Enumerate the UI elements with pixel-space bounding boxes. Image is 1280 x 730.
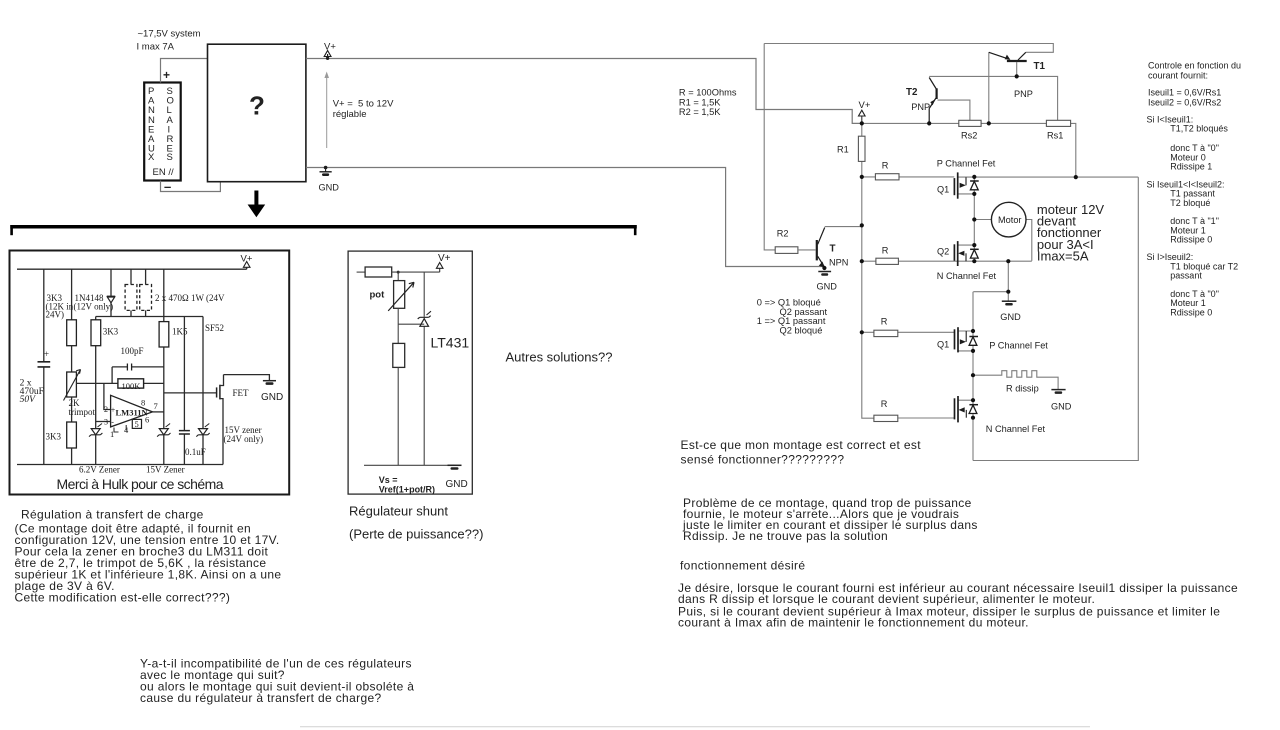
wire R gate Q1 — [862, 176, 955, 178]
svg-text:24V): 24V) — [46, 310, 65, 320]
svg-text:EN //: EN // — [153, 167, 174, 178]
resistor 3K3 lower left — [67, 422, 77, 465]
svg-text:réglable: réglable — [333, 109, 367, 120]
transistor Q2 N channel — [937, 241, 966, 266]
svg-text:sensé fonctionner?????????: sensé fonctionner????????? — [681, 452, 845, 466]
svg-text:Rdissipe 0: Rdissipe 0 — [1170, 307, 1212, 317]
svg-text:fonctionnement désiré: fonctionnement désiré — [680, 559, 805, 573]
dashed resistor b — [140, 269, 152, 316]
svg-text:GND: GND — [1051, 402, 1072, 412]
ground GND LM311 — [261, 381, 283, 403]
svg-text:V+: V+ — [324, 42, 336, 53]
text incompatibilite question — [140, 657, 414, 706]
motor M — [991, 202, 1026, 237]
resistor 3K3 middle branch — [91, 317, 101, 429]
svg-text:Motor: Motor — [998, 215, 1022, 225]
svg-text:V+ = 5 to 12V: V+ = 5 to 12V — [333, 99, 394, 110]
LT431 schematic frame — [348, 251, 472, 494]
body diode Q1b — [969, 337, 978, 346]
text je desire paragraph — [678, 581, 1238, 629]
svg-text:R: R — [881, 399, 888, 409]
node V+ LT431 — [436, 253, 450, 272]
svg-text:5: 5 — [135, 419, 139, 429]
svg-text:R1: R1 — [837, 145, 849, 155]
wire motor left — [974, 219, 992, 221]
bottom rail — [17, 464, 223, 466]
wire Q1 source stub — [958, 193, 975, 195]
svg-text:courant à Imax afin de mainten: courant à Imax afin de maintenir le fonc… — [678, 615, 1029, 629]
svg-text:+: + — [163, 68, 170, 82]
wire FET drain to GND — [224, 375, 270, 380]
svg-text:V+: V+ — [859, 100, 871, 111]
svg-text:Q2 bloqué: Q2 bloqué — [780, 326, 823, 336]
shunt regulator LT431 — [418, 272, 470, 465]
svg-text:Controle en fonction du: Controle en fonction du — [1148, 61, 1241, 71]
wire T1 base line to Rs1 — [929, 76, 1057, 120]
resistor R a — [875, 161, 899, 180]
capacitor 0.1uF branch — [179, 317, 190, 465]
capacitor 100pF — [112, 364, 164, 384]
label moteur 12V block — [1037, 202, 1105, 263]
svg-text:Rs2: Rs2 — [961, 131, 977, 141]
svg-text:GND: GND — [817, 282, 838, 292]
resistor Rs2 — [959, 120, 981, 140]
annotation arrow V+ range — [324, 72, 329, 149]
text regulation a transfert de charge — [15, 508, 282, 605]
svg-text:N Channel Fet: N Channel Fet — [937, 271, 997, 281]
LM311 schematic frame — [10, 251, 290, 495]
body diode Q2 — [970, 249, 979, 258]
svg-text:GND: GND — [446, 479, 468, 490]
label 1N4148 (12V only) — [74, 293, 114, 311]
transistor Q2b N channel lower — [955, 396, 967, 422]
svg-text:GND: GND — [261, 392, 283, 403]
svg-text:50V: 50V — [20, 395, 36, 405]
zener 15V output — [157, 424, 170, 465]
ground GND LT431 — [446, 465, 468, 490]
V+ rail top — [17, 268, 247, 270]
transistor Q1b P channel lower — [937, 327, 966, 352]
svg-text:Rs1: Rs1 — [1047, 131, 1063, 141]
svg-text:R: R — [882, 161, 889, 171]
svg-text:SF52: SF52 — [205, 323, 224, 333]
svg-text:Rdissip. Je ne trouve pas la s: Rdissip. Je ne trouve pas la solution — [683, 529, 888, 543]
svg-text:(24V only): (24V only) — [224, 434, 264, 444]
wire V+ rail — [862, 123, 1076, 177]
capacitor 2x470uF branch — [38, 269, 51, 464]
svg-text:FET: FET — [233, 388, 250, 398]
wire Q2 source line — [862, 260, 1032, 262]
zener 15V right — [196, 317, 209, 465]
wire Q1 drain line — [958, 176, 1139, 178]
svg-text:P Channel Fet: P Channel Fet — [989, 341, 1048, 351]
wire motor right down — [1026, 220, 1032, 261]
svg-text:Cette modification est-elle co: Cette modification est-elle correct???) — [15, 590, 231, 604]
svg-text:Iseuil2 = 0,6V/Rs2: Iseuil2 = 0,6V/Rs2 — [1148, 98, 1221, 108]
svg-text:1K5: 1K5 — [172, 327, 188, 337]
label 2K trimpot — [69, 398, 96, 417]
svg-text:Iseuil1 = 0,6V/Rs1: Iseuil1 = 0,6V/Rs1 — [1148, 88, 1221, 98]
wire node to lower bridge — [973, 261, 1008, 301]
wire top feed down to R2 — [764, 44, 775, 250]
wire Q2 top stub — [958, 244, 975, 246]
node V+ top-left — [324, 42, 336, 61]
svg-text:Q1: Q1 — [937, 185, 949, 195]
bottom faint scan line — [300, 726, 1090, 727]
svg-text:GND: GND — [319, 183, 340, 193]
svg-text:LM311N: LM311N — [116, 407, 149, 417]
svg-text:Rdissipe 0: Rdissipe 0 — [1170, 235, 1212, 245]
trimpot 2K — [64, 370, 81, 423]
svg-text:T1: T1 — [1034, 61, 1046, 72]
svg-text:T2: T2 — [906, 87, 918, 98]
svg-text:I max 7A: I max 7A — [137, 42, 175, 53]
junction dots — [822, 74, 1078, 420]
svg-text:Q2: Q2 — [937, 247, 949, 257]
svg-text:R: R — [882, 246, 889, 256]
svg-text:Régulateur shunt: Régulateur shunt — [349, 504, 448, 519]
svg-text:T: T — [830, 244, 836, 255]
zener 6.2V — [89, 424, 102, 465]
label 15V zener (24V only) — [224, 425, 264, 444]
svg-text:Q1: Q1 — [937, 340, 949, 350]
svg-text:LT431: LT431 — [431, 335, 470, 351]
svg-text:R dissip: R dissip — [1006, 384, 1039, 394]
resistor R1 — [837, 136, 865, 161]
bottom rail LT431 — [364, 464, 455, 466]
svg-text:courant fournit:: courant fournit: — [1148, 70, 1208, 80]
transistor T1 — [989, 52, 1046, 99]
resistor R b — [876, 246, 899, 265]
wire gate drive — [164, 392, 217, 394]
svg-text:3K3: 3K3 — [103, 327, 119, 337]
label 2x470uF 50V — [20, 379, 44, 405]
wire solar minus to ? box — [161, 181, 221, 192]
wire to LT431 ref — [398, 323, 424, 325]
svg-text:R2: R2 — [777, 229, 789, 239]
svg-text:Merci à Hulk pour ce schéma: Merci à Hulk pour ce schéma — [57, 476, 224, 492]
svg-text:2 x 470Ω 1W (24V: 2 x 470Ω 1W (24V — [155, 293, 225, 303]
svg-text:100K: 100K — [122, 381, 142, 391]
wire top feed to T1 emitter — [764, 44, 1053, 53]
text controle en fonction du courant — [1147, 61, 1242, 318]
resistor R2 base — [775, 229, 798, 254]
ground GND T emitter — [817, 272, 838, 292]
svg-text:passant: passant — [1170, 271, 1202, 281]
svg-text:3: 3 — [104, 417, 108, 426]
svg-text:Régulation à transfert de char: Régulation à transfert de charge — [21, 508, 204, 522]
svg-text:N Channel Fet: N Channel Fet — [986, 424, 1046, 434]
resistor 1K5 branch — [159, 269, 169, 428]
svg-text:?: ? — [249, 91, 265, 121]
resistor R d — [874, 399, 898, 422]
label R values — [679, 87, 737, 117]
resistor series top — [365, 267, 392, 277]
ground GND R dissip — [1051, 390, 1072, 412]
body diode Q1 — [970, 181, 979, 190]
resistor 100K feedback — [76, 379, 163, 391]
svg-text:GND: GND — [1000, 312, 1021, 322]
svg-text:P Channel Fet: P Channel Fet — [937, 159, 996, 169]
svg-text:15V Zener: 15V Zener — [146, 465, 185, 475]
wire motor column — [973, 177, 975, 261]
solar panel PANNEAUX SOLAIRES — [144, 83, 181, 181]
svg-text:3K3: 3K3 — [46, 432, 62, 442]
divider bar — [10, 225, 637, 235]
wire solar plus to ? box — [161, 59, 208, 83]
svg-text:Autres solutions??: Autres solutions?? — [506, 350, 613, 365]
svg-text:6: 6 — [145, 415, 149, 425]
svg-text:R2 = 1,5K: R2 = 1,5K — [679, 107, 721, 117]
resistor Rs1 — [1046, 120, 1070, 140]
wire V+ output to right circuit — [306, 59, 862, 124]
node V+ LM311 — [241, 254, 253, 270]
wire right edge loop — [973, 177, 1138, 460]
svg-text:PNP: PNP — [1014, 89, 1033, 99]
big down arrow — [248, 191, 266, 218]
resistor R c — [874, 317, 898, 337]
wire R gate Q2b — [898, 417, 955, 419]
svg-text:Vs =: Vs = — [379, 475, 398, 485]
wire R gate Q1b — [862, 331, 955, 333]
transistor T2 — [906, 78, 937, 124]
svg-text:+: + — [44, 349, 49, 359]
resistor lower R — [393, 343, 405, 465]
svg-text:R: R — [881, 317, 888, 327]
ground GND top-left — [319, 166, 340, 193]
wire inverting input — [96, 421, 111, 423]
label V+ = 5 to 12V reglable — [333, 99, 394, 121]
svg-text:100pF: 100pF — [121, 346, 144, 356]
svg-text:8: 8 — [141, 397, 145, 407]
svg-text:pot: pot — [370, 290, 386, 301]
svg-text:7: 7 — [154, 401, 158, 411]
wire lower bridge column — [972, 292, 974, 461]
svg-text:X: X — [148, 152, 155, 163]
svg-text:T1,T2 bloqués: T1,T2 bloqués — [1170, 124, 1228, 134]
sub rail — [96, 316, 203, 318]
svg-text:(12V only): (12V only) — [74, 301, 114, 311]
potentiometer pot — [370, 271, 415, 311]
dashed resistor a — [125, 269, 137, 316]
svg-text:(Perte de puissance??): (Perte de puissance??) — [349, 527, 483, 542]
wire output pin7 — [153, 411, 164, 413]
svg-text:-: - — [111, 418, 114, 427]
wire pot to lower resistor — [397, 308, 399, 343]
wire Q1b stubs — [958, 331, 973, 351]
label Vs formula — [379, 475, 435, 495]
transistor Q1 P channel — [937, 172, 966, 198]
svg-text:Rdissipe 1: Rdissipe 1 — [1170, 162, 1212, 172]
wire Q2b top stub — [958, 399, 973, 401]
svg-text:Est-ce que mon montage est cor: Est-ce que mon montage est correct et es… — [681, 438, 922, 452]
wire GND output to right circuit — [306, 168, 824, 267]
wire T2 base to Rs2 — [938, 100, 970, 120]
wire T1 collector to rail — [988, 52, 990, 123]
svg-text:NPN: NPN — [829, 258, 848, 268]
pin 5 box — [132, 419, 141, 429]
node V+ right — [859, 100, 871, 123]
svg-text:Imax=5A: Imax=5A — [1037, 248, 1089, 263]
svg-text:PNP: PNP — [911, 102, 930, 112]
transistor FET — [217, 375, 249, 465]
label 3K3 (12K in 24V) — [46, 293, 74, 320]
wire top input — [357, 271, 366, 273]
text probleme de ce montage — [682, 496, 978, 543]
svg-text:S: S — [167, 152, 173, 163]
transistor T NPN — [798, 227, 862, 268]
svg-text:T2 bloqué: T2 bloqué — [1170, 198, 1210, 208]
body diode Q2b — [969, 405, 978, 414]
svg-text:cause du régulateur à transfer: cause du régulateur à transfert de charg… — [140, 691, 382, 705]
wire left rail down — [862, 123, 874, 418]
text logic states — [757, 298, 828, 336]
svg-text:2: 2 — [104, 405, 108, 414]
svg-text:V+: V+ — [241, 254, 253, 265]
regulator box ? — [208, 44, 306, 182]
wire top to V+ — [392, 271, 440, 273]
ground GND motor node — [1000, 301, 1021, 322]
resistor 3K3 upper left branch — [67, 269, 77, 372]
svg-text:~17,5V system: ~17,5V system — [138, 29, 201, 40]
diode 1N4148 — [107, 269, 115, 316]
svg-text:R = 100Ohms: R = 100Ohms — [679, 87, 737, 97]
resistor R dissip — [973, 371, 1058, 394]
svg-text:+: + — [111, 406, 116, 415]
svg-text:trimpot: trimpot — [69, 407, 96, 417]
svg-text:Vref(1+pot/R): Vref(1+pot/R) — [379, 485, 435, 495]
svg-text:6.2V Zener: 6.2V Zener — [79, 465, 120, 475]
op-amp LM311N — [104, 395, 158, 439]
wire noninverting input — [104, 383, 111, 409]
svg-text:R1 = 1,5K: R1 = 1,5K — [679, 98, 721, 108]
text est-ce que mon montage — [681, 438, 922, 466]
